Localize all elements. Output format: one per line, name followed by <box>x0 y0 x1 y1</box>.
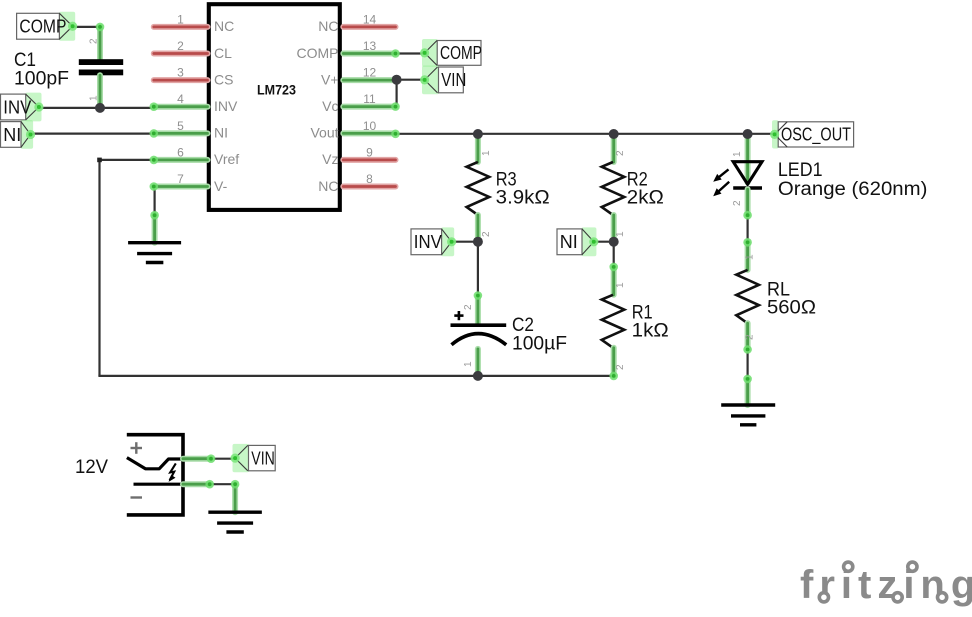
svg-text:12: 12 <box>363 66 377 80</box>
svg-text:2: 2 <box>463 304 474 310</box>
svg-text:NI: NI <box>3 125 21 145</box>
capacitor C2 curved bottom plate <box>452 334 507 345</box>
node Vout/R2 junction <box>609 129 619 139</box>
12V minus sign <box>131 496 143 498</box>
wire INV mid label to R3 bottom node <box>452 241 478 243</box>
svg-text:Vout: Vout <box>310 125 338 141</box>
svg-text:NC: NC <box>318 178 338 194</box>
capacitor C1 pin 2 <box>97 27 103 59</box>
pin 12 V+ (right) <box>321 66 394 88</box>
svg-text:1: 1 <box>615 231 626 237</box>
svg-text:3: 3 <box>177 66 184 80</box>
svg-text:LM723: LM723 <box>257 82 296 98</box>
pin 2 CL (left) <box>154 39 232 61</box>
svg-text:LED1: LED1 <box>778 160 823 181</box>
ground pin stub (V-) <box>150 211 159 243</box>
C1 pin number 2 <box>89 38 100 44</box>
capacitor C2 pin 1 stub <box>463 349 478 376</box>
resistor R1 pin 2 stub <box>609 348 626 380</box>
pin connection blobs on IC <box>150 49 400 191</box>
capacitor C2 pin 2 stub <box>463 291 482 323</box>
resistor R3 pin 2 stub <box>478 215 492 242</box>
svg-text:2: 2 <box>177 39 184 53</box>
svg-text:Vref: Vref <box>214 151 239 167</box>
svg-text:1: 1 <box>89 95 100 101</box>
net label NI (left) <box>1 120 36 149</box>
net label COMP (right of pin 13) <box>420 39 482 67</box>
svg-text:VIN: VIN <box>251 448 274 468</box>
LED1 pin 1 stub <box>732 134 748 183</box>
svg-text:7: 7 <box>177 172 184 186</box>
wire NI label to pin 5 <box>31 133 156 135</box>
resistor R1 <box>602 295 625 348</box>
IC U1 LM723 body <box>209 4 340 210</box>
net label OSC_OUT <box>770 120 854 148</box>
svg-text:NC: NC <box>214 18 234 34</box>
pin 7 V- (left) <box>154 172 228 194</box>
svg-text:Orange (620nm): Orange (620nm) <box>778 179 928 200</box>
wire V+ node down to pin 11 Vc <box>396 80 398 107</box>
svg-text:Vc: Vc <box>322 98 338 114</box>
capacitor C2 top plate <box>451 323 507 327</box>
svg-text:OSC_OUT: OSC_OUT <box>781 125 851 146</box>
node C1/INV junction <box>95 103 105 113</box>
ground symbol (12V) <box>208 512 262 532</box>
capacitor C1 pin 1 <box>97 75 103 108</box>
12V plus sign <box>131 442 143 454</box>
pin 13 COMP (right) <box>297 39 396 61</box>
12V minus terminal lead <box>134 483 184 486</box>
wire pin 13 COMP to label <box>396 52 425 54</box>
svg-text:1: 1 <box>177 12 184 26</box>
svg-text:CS: CS <box>214 71 233 87</box>
svg-text:V-: V- <box>214 178 228 194</box>
fritzing watermark logo <box>800 563 972 607</box>
net label INV (mid, at R3/C2) <box>411 227 456 256</box>
svg-text:12V: 12V <box>75 457 108 478</box>
LED1 value label <box>778 160 928 200</box>
wire bottom horizontal bus y=376 <box>98 375 613 377</box>
svg-text:1: 1 <box>732 151 743 157</box>
resistor RL <box>736 270 759 323</box>
ground symbol (RL) <box>721 405 775 425</box>
svg-text:4: 4 <box>177 92 184 106</box>
wire 12V minus to ground elbow <box>210 483 235 485</box>
resistor RL pin 1 stub <box>743 238 755 270</box>
node R3/INV/C2 junction <box>473 237 483 247</box>
svg-text:100µF: 100µF <box>512 333 567 354</box>
svg-text:NI: NI <box>560 232 578 252</box>
pin 3 CS (left) <box>154 66 234 88</box>
svg-text:CL: CL <box>214 45 232 61</box>
svg-text:COMP: COMP <box>19 17 66 37</box>
pin 9 Vz (right) <box>322 145 395 167</box>
svg-text:100pF: 100pF <box>14 68 69 89</box>
net label NI (mid, at R2/R1) <box>557 227 598 256</box>
resistor R3 pin 1 stub <box>478 134 492 162</box>
svg-text:10: 10 <box>363 119 377 133</box>
fritzing logo rings <box>819 562 946 602</box>
net label COMP (top left) <box>17 12 78 41</box>
svg-text:INV: INV <box>414 232 442 252</box>
net label VIN (right of pin 12) <box>420 66 466 95</box>
C1 pin number 1 <box>89 95 100 101</box>
svg-text:11: 11 <box>363 92 376 106</box>
svg-text:6: 6 <box>177 145 184 159</box>
pin 10 Vout (right) <box>310 119 395 141</box>
bendpoint COMP wire corner <box>96 23 105 32</box>
resistor RL pin 2 stub <box>743 323 755 354</box>
R3 value label <box>496 170 550 209</box>
RL value label <box>767 280 816 319</box>
pin 4 INV (left) <box>154 92 238 114</box>
net label VIN (at 12V) <box>231 444 276 472</box>
wire Vout horizontal net to OSC_OUT <box>396 133 775 135</box>
12V lightning mark <box>169 463 176 482</box>
capacitor C1 plates <box>79 59 123 75</box>
svg-text:COMP: COMP <box>297 45 339 61</box>
svg-text:2: 2 <box>481 231 492 237</box>
svg-text:2: 2 <box>732 200 743 206</box>
node Vout/R3 junction <box>473 129 483 139</box>
capacitor C2 plus sign <box>454 311 463 320</box>
ground pin stub (12V minus) <box>231 480 240 512</box>
wire pin 6 Vref to left bend <box>100 159 154 161</box>
C1 value label <box>14 50 69 89</box>
12V plus pin stub <box>183 454 215 463</box>
svg-text:14: 14 <box>363 12 377 26</box>
pin 14 NC (right) <box>318 12 395 34</box>
ground symbol (V-) <box>128 243 181 263</box>
svg-text:1kΩ: 1kΩ <box>632 320 669 341</box>
LED1 triangle <box>733 162 762 185</box>
ground pin stub (RL) <box>743 375 752 405</box>
svg-text:8: 8 <box>366 172 373 186</box>
node R2/NI/R1 junction <box>609 237 619 247</box>
svg-text:2kΩ: 2kΩ <box>627 188 664 209</box>
wire NI mid label to R2 bottom node <box>594 241 614 243</box>
svg-text:1: 1 <box>463 361 474 367</box>
resistor R3 <box>467 162 490 215</box>
svg-text:VIN: VIN <box>441 70 466 90</box>
wire pin 7 V- elbow down <box>153 185 156 215</box>
net label INV (left) <box>1 93 44 122</box>
wire RL bottom to ground stub <box>746 350 748 379</box>
bendpoint Vref corner <box>97 158 102 163</box>
svg-text:2: 2 <box>615 150 626 156</box>
svg-text:V+: V+ <box>321 71 339 87</box>
pin 6 Vref (left) <box>154 145 239 167</box>
svg-text:2: 2 <box>89 38 100 44</box>
node V+ junction <box>392 75 402 85</box>
svg-text:1: 1 <box>615 282 626 288</box>
svg-text:560Ω: 560Ω <box>767 298 816 319</box>
svg-text:13: 13 <box>363 39 377 53</box>
wire R2 node down to R1 <box>613 242 615 267</box>
svg-text:INV: INV <box>214 98 238 114</box>
svg-text:1: 1 <box>481 150 492 156</box>
battery J1 12V barrel jack frame <box>127 435 183 515</box>
pin 1 NC (left) <box>154 12 234 34</box>
pin 11 Vc (right) <box>322 92 395 114</box>
wire pin 12 V+ node to VIN label <box>397 79 425 81</box>
svg-text:2: 2 <box>745 334 756 340</box>
svg-text:Vz: Vz <box>322 151 338 167</box>
wire 12V plus to VIN label <box>211 458 235 460</box>
wire INV label to pin 4 through node <box>39 107 156 109</box>
LED1 emission arrows <box>713 169 729 196</box>
wire LED cathode to RL <box>746 215 748 242</box>
wire R3 node down to C2 <box>477 242 479 296</box>
svg-text:NI: NI <box>214 125 228 141</box>
svg-text:INV: INV <box>3 97 31 117</box>
resistor R2 <box>602 162 625 215</box>
LED1 pin 2 stub <box>732 189 752 219</box>
resistor R1 pin 1 stub <box>609 263 626 295</box>
node Vout/LED junction <box>743 129 753 139</box>
svg-text:3.9kΩ: 3.9kΩ <box>496 188 550 209</box>
LED1 cathode bar <box>733 186 762 189</box>
C2 value label <box>512 315 567 354</box>
pin 8 NC (right) <box>318 172 395 194</box>
12V value label <box>75 457 108 478</box>
wire left vertical bus x=100 <box>98 159 100 376</box>
svg-text:9: 9 <box>366 145 373 159</box>
R1 value label <box>632 303 669 342</box>
pin 5 NI (left) <box>154 119 228 141</box>
svg-text:2: 2 <box>615 364 626 370</box>
resistor R2 pin 1 stub <box>614 215 626 242</box>
12V minus pin stub <box>183 480 214 489</box>
wire COMP label to C1 top corner <box>73 26 100 28</box>
svg-text:1: 1 <box>745 254 756 260</box>
R2 value label <box>627 170 664 209</box>
12V plus terminal lead <box>127 458 183 469</box>
svg-text:COMP: COMP <box>440 43 482 63</box>
svg-text:NC: NC <box>318 18 338 34</box>
resistor R2 pin 2 stub <box>614 134 626 162</box>
svg-text:5: 5 <box>177 119 184 133</box>
node C2/bottom bus junction <box>473 371 483 381</box>
